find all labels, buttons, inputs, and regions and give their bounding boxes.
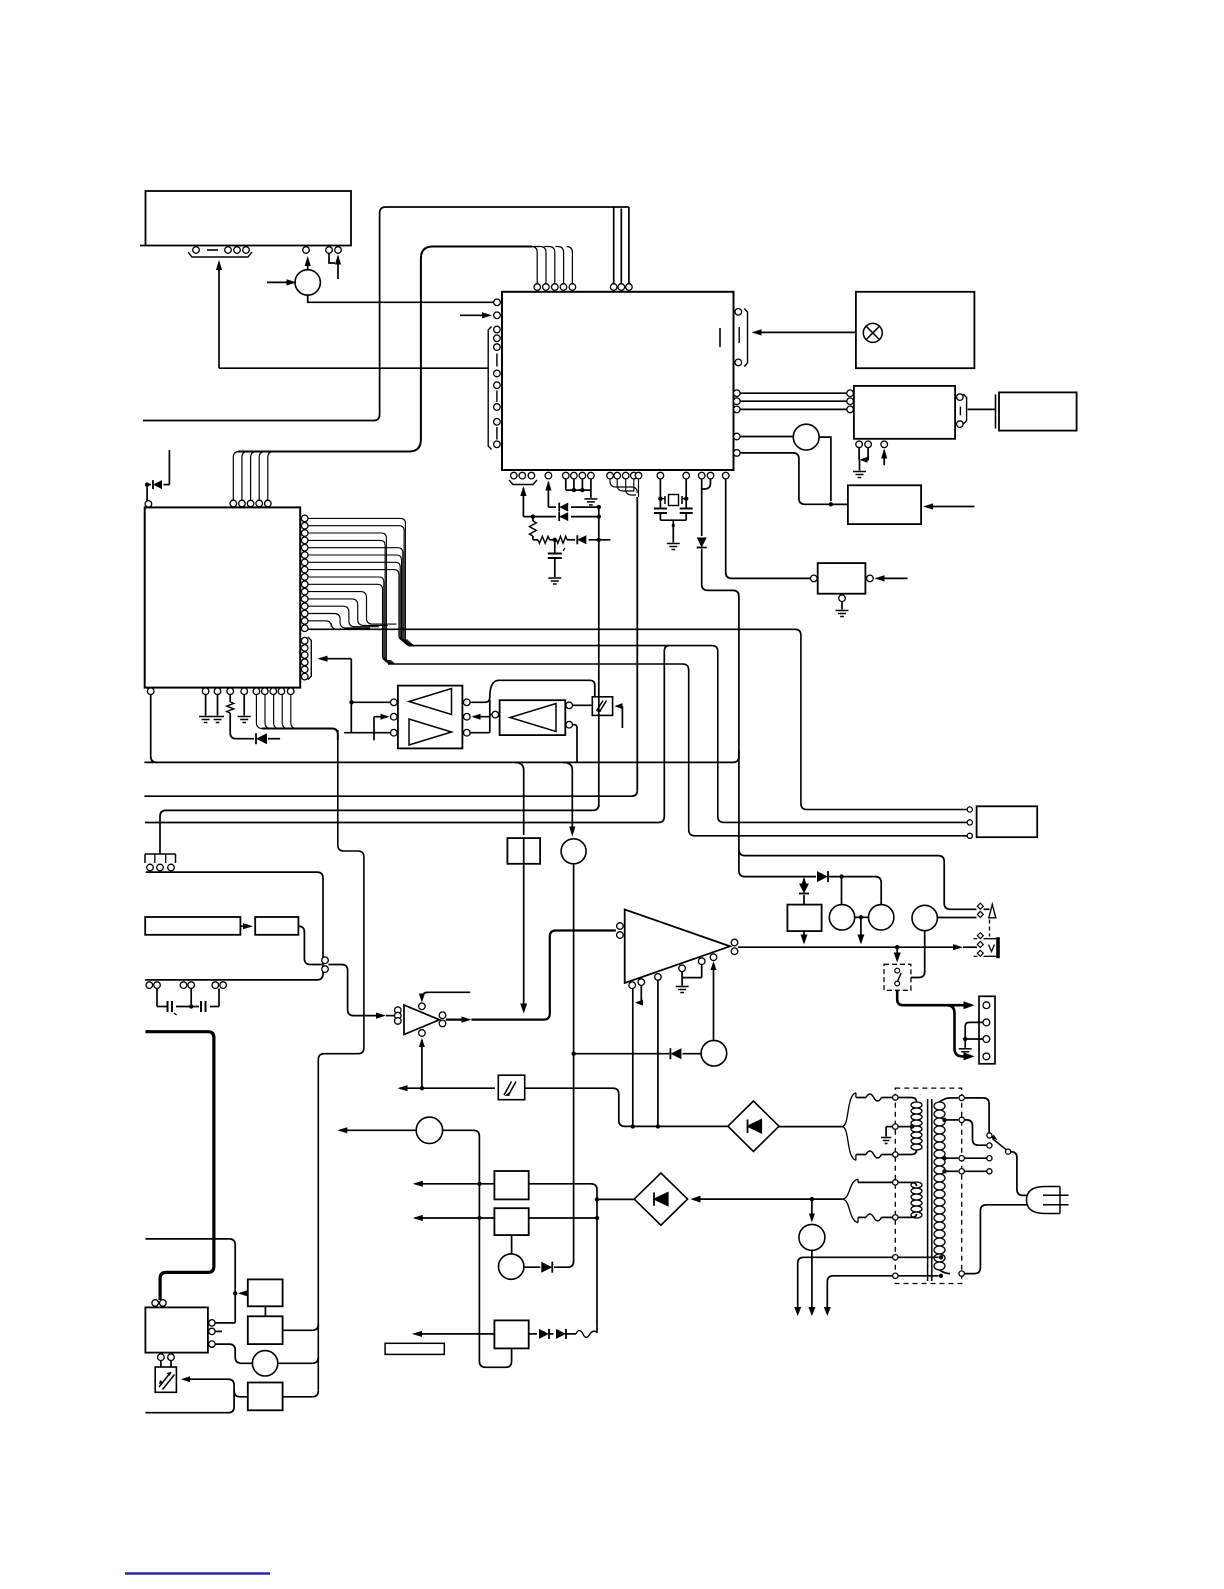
wire: H856 branch to jack sense <box>739 850 977 910</box>
wire: R2 to Q7 <box>511 1235 513 1254</box>
bracket: IC1 bottom group1 <box>509 480 537 485</box>
bus: H645 to right box pin2 <box>408 646 967 823</box>
wire: secondary tap4 <box>942 1169 946 1173</box>
wire: C right to V318 <box>283 1396 313 1398</box>
node: rail junctions <box>597 505 601 509</box>
wire: Q3 down V574 <box>554 864 574 1267</box>
wire: secondary lower arm bottom <box>857 1217 859 1222</box>
wire: long H762 <box>144 750 739 762</box>
block: box-T tuner unit <box>848 485 921 524</box>
wire: diode rail2 <box>523 516 556 518</box>
wire: arrow into buffer1 mid <box>374 716 387 718</box>
block: power unit box right <box>977 806 1038 837</box>
ground: display unit <box>853 472 866 478</box>
winding: T1 secondary <box>934 1102 945 1110</box>
wire: H1239 <box>145 1238 229 1240</box>
block: box A <box>248 1279 283 1306</box>
transistor Q4b <box>869 905 894 930</box>
diode D10 <box>817 871 828 882</box>
wire: IC1 pin to reset IC <box>726 479 811 578</box>
wire: V490 ties <box>489 700 491 733</box>
switch SW2 power <box>987 1133 992 1138</box>
resistor R4 under IC2 <box>229 695 231 703</box>
wire: arrow down to Q6 <box>811 1199 813 1219</box>
wire: V574 through Q3 <box>573 838 575 840</box>
board outline thick L <box>145 1032 214 1300</box>
diode D3 on rail3 <box>576 535 578 544</box>
wire: IC1 to Q2 <box>740 436 793 438</box>
diode D11 <box>539 1329 549 1339</box>
wire: CN3 to V323 <box>145 872 323 980</box>
pins: display bottom <box>856 441 863 448</box>
ground: IC2 pin b <box>211 717 224 723</box>
block: box R3 <box>494 1320 528 1348</box>
pins: power amp bottom <box>629 982 636 989</box>
wire: arrow into box A <box>238 1290 247 1296</box>
bracket: IC2 lower-right <box>308 637 311 680</box>
wire: H1184 row <box>413 1181 423 1187</box>
wire: V524 box1 chain <box>523 838 525 864</box>
wire: pin pair to opamp1 <box>328 965 383 1016</box>
wire: gnd stubs IC2 bottom <box>205 695 207 716</box>
wire: box bottom-edge extension <box>140 245 146 247</box>
brace right of BR2 <box>842 1179 858 1199</box>
node: V479 junctions <box>477 1182 481 1186</box>
block: box R2 <box>494 1208 528 1235</box>
block: box V1 (motor driver) <box>507 838 540 864</box>
pin: opamp1 top <box>419 1003 426 1010</box>
wire: Q1a emitter to IC1 pin <box>308 295 494 302</box>
pins: IC2 top <box>230 500 237 507</box>
pins: T1 right edge <box>959 1095 964 1100</box>
connector CN2 <box>979 996 995 1064</box>
wire: tap 1276 to arrow <box>827 1276 892 1312</box>
diode D2 on rail2 <box>558 512 560 521</box>
wire: arrow L1 to L2 <box>240 925 250 927</box>
wire: V352 to buffer and bundle <box>350 659 352 733</box>
pins: under H980 <box>146 982 153 989</box>
brace right of BR1 <box>842 1093 856 1127</box>
wire: IC2 pin to H762 <box>151 695 157 763</box>
lamp symbol <box>863 323 882 342</box>
ground: group3 <box>584 499 597 505</box>
wire: D6 tail <box>268 738 280 740</box>
wire: pins group3 to gnd bus <box>565 479 567 490</box>
wire: Q8 to V318 <box>278 1362 313 1364</box>
pins: IC1 bottom <box>511 472 518 479</box>
capacitor C2 <box>654 508 667 510</box>
IC U5 servo/signal processor <box>145 507 301 687</box>
LDR symbol <box>159 1372 175 1390</box>
fuse F2 <box>866 1151 882 1158</box>
wire: secondary lower arm top <box>858 1181 893 1183</box>
pins: IC1 right trio <box>734 390 741 397</box>
bus: IC2 bottom 5-wire bundle to V338 <box>262 729 338 741</box>
wire: secondary tap2 <box>942 1118 946 1122</box>
fuse F3 <box>866 1214 882 1221</box>
wire: CN4 pin2 stub <box>215 1330 222 1332</box>
wire: primary bottom arm <box>856 1154 866 1156</box>
pin: IC2 top-left <box>145 501 152 508</box>
LDR (CdS cell) box <box>155 1367 176 1392</box>
zener D9 <box>799 884 809 894</box>
bus: IC2 pins to column B <box>308 533 395 664</box>
wire: IC1 top pin stubs <box>613 207 615 284</box>
bus: H629 net to right box pin1 <box>308 629 967 809</box>
switch SW1 dashed box <box>884 964 911 990</box>
wire: V2 down-arrow to output line <box>803 931 805 941</box>
node: junction V831/H504 <box>829 502 833 506</box>
bracket: IC1 left pin group <box>488 327 491 450</box>
wire: arrow into box-T <box>926 506 975 508</box>
buffer triangle B <box>409 719 452 745</box>
ground: IC2 pin a <box>199 717 212 723</box>
wire: group4 bundle hooks <box>636 497 638 790</box>
wire: CN4 pin3 to Q8 <box>215 1344 252 1363</box>
node: D10 out <box>839 874 843 878</box>
AC plug PL1 <box>1027 1187 1061 1214</box>
transistor Q7 <box>499 1254 524 1279</box>
wire: up-arrow on zener stem <box>801 877 807 886</box>
capacitor C3 <box>680 508 693 510</box>
wire: A-B link <box>264 1306 266 1316</box>
photo symbol PH2 <box>597 701 607 712</box>
wire: cap chain <box>156 989 158 1007</box>
wire: amp pin to Q5 up-arrow <box>711 961 717 970</box>
transistor Q4c <box>912 905 937 930</box>
wire: opamp1 output to power amp <box>446 1018 468 1020</box>
block: box R1 <box>494 1171 528 1199</box>
pin: reset right <box>867 575 874 582</box>
op-amp U3 <box>404 1005 440 1035</box>
wire: display pin up-arrow stub <box>883 450 885 465</box>
fuse F1 <box>866 1094 882 1101</box>
pins: CN2 <box>983 1002 990 1009</box>
wire: Q4c to jack tip <box>937 917 976 919</box>
wire: arrow down into switch <box>896 947 898 959</box>
pins: opamp1 out <box>439 1012 446 1019</box>
op-amp U4 power amplifier <box>625 910 730 984</box>
wire: L2 to pin pair <box>298 926 321 964</box>
wire: SW2 to plug <box>1011 1152 1028 1196</box>
wire: hook with up-arrow at pins <box>329 253 335 263</box>
crystal X1 circuit <box>659 479 661 499</box>
wire: opamp1 bottom to H1088 <box>419 1038 425 1047</box>
wire: amp hook arrow <box>637 985 641 1002</box>
motor M1 circle <box>416 1117 442 1143</box>
bus: IC2 pins to column A <box>308 518 414 645</box>
pins: display unit left <box>847 390 854 397</box>
wire: arrow from lamp unit into IC1 <box>754 331 856 333</box>
wire: rails tie V599 <box>598 507 600 540</box>
resistor R2 horizontal <box>538 536 550 543</box>
pins: CN3 <box>147 864 154 871</box>
wire: zener pins merge <box>701 479 703 536</box>
wire: H1054 from V574 to D8 <box>572 1052 576 1056</box>
connector CN4 box <box>145 1307 208 1352</box>
capacitor C4 <box>167 1001 169 1012</box>
wire: reset gnd stem <box>841 602 843 610</box>
block: panel box right <box>999 392 1077 430</box>
wire: SW1 to CN2 pin1 thick <box>897 990 971 1005</box>
wire: into opamp1 pins <box>386 1015 394 1017</box>
wire: H822 to V668 <box>145 646 668 823</box>
pin: opamp1 bottom <box>419 1030 426 1037</box>
wire: R2 to V597 <box>529 1217 597 1219</box>
wire: tap 1257 to arrow <box>798 1257 893 1312</box>
buffer2 triangle <box>510 704 556 732</box>
photo symbol PH1 <box>504 1082 516 1096</box>
wire: primary top arm <box>856 1097 866 1099</box>
diode D6 <box>255 733 257 744</box>
pin: buffer2 left <box>492 711 499 718</box>
pins: power unit left <box>967 807 972 812</box>
transistor Q5 <box>701 1040 727 1066</box>
ground: CN2 <box>959 1049 972 1055</box>
wire: arrow into BR2 <box>691 1196 701 1203</box>
wire: 3 lines IC1 to display unit <box>740 392 847 394</box>
bus: 5-wire bundle IC2 top pins to IC1 top pins <box>238 247 532 452</box>
wire: arrow into buffer1 mid-right <box>472 714 481 720</box>
thermal protector Q6 <box>799 1224 825 1250</box>
wire: primary mid tap gnd <box>886 1126 893 1128</box>
wire: cap to gnd <box>554 558 556 577</box>
wire: H796 to IC1 bundle <box>144 790 637 796</box>
wire: long net y=420 up x=380 right y=207 to IC1 <box>143 207 629 421</box>
transistor Q2 <box>793 424 819 450</box>
diode D1 on rail1 <box>558 503 560 512</box>
IC U7 buffer <box>500 700 566 735</box>
wire: T1 bottom to plug <box>940 1270 951 1274</box>
wire: LDR pin stubs <box>160 1361 162 1368</box>
wire: buffer2 to photo box <box>573 704 593 706</box>
diode D5 net at IC2 top-left <box>145 482 149 486</box>
wire: Q6 down arrow <box>811 1250 813 1312</box>
wire: BR1 to brace <box>779 1126 842 1128</box>
block: top-left PCB unit box <box>146 191 352 246</box>
wire: arrow into IC1 pin2 <box>460 314 489 316</box>
pins: opamp1 left <box>395 1007 402 1014</box>
pin: IC1 left pin1 <box>494 299 501 306</box>
connector CN3 bracket <box>145 853 176 855</box>
block: box B <box>248 1316 283 1344</box>
pins: LDR top <box>158 1354 165 1361</box>
bus: IC2 lower pins fan <box>308 592 397 625</box>
wire: power amp output line <box>738 946 960 948</box>
block: power/lamp unit box <box>856 292 975 368</box>
pins: power amp in <box>617 923 624 930</box>
wire: amp pin V658 <box>657 980 659 1126</box>
node pins above transistor Q1a <box>303 247 310 254</box>
wire: IC1 pin5 to box-T <box>740 453 848 504</box>
wire: B right to V318 <box>283 1329 313 1331</box>
pins: IC2 bottom <box>147 688 154 695</box>
capacitor C1 <box>548 553 562 555</box>
wire: diode row H877 <box>752 876 816 878</box>
wire: D8 to Q5 <box>682 1053 701 1055</box>
pin: reset left <box>811 575 818 582</box>
pins: CN4 right <box>209 1320 215 1326</box>
diode D7 <box>541 1262 552 1273</box>
bracket: IC1 right connector <box>744 309 747 367</box>
wire: opamp1 bias stub <box>422 992 470 998</box>
ground: C1 <box>548 578 561 584</box>
block: mechanism unit box L1 <box>145 917 240 935</box>
wire: diode rail1 <box>548 506 556 508</box>
wire: buffer2 low stub <box>573 725 577 763</box>
jack J1 lower pins <box>977 933 983 957</box>
wire: primary connections <box>898 1097 911 1099</box>
wire: arrow into IC2 bracket <box>318 656 328 662</box>
wire: D7 to Q7 <box>524 1266 540 1268</box>
wire: V599 down to H810 <box>598 540 600 807</box>
wire: V597 <box>596 1199 598 1328</box>
bus: H664 to right box pin3 <box>388 664 967 836</box>
wire: arrow into LDR <box>181 1376 190 1382</box>
IC U2 reset supervisor <box>818 563 866 594</box>
wire: rail3 base <box>533 539 538 541</box>
diode symbol in BR1 <box>747 1120 749 1134</box>
wire: Q4a-Q4b link <box>855 916 869 918</box>
wire: display bottom gnd hook <box>861 448 868 460</box>
transformer T1 dashed box <box>895 1088 961 1283</box>
pin: reset bottom <box>839 595 846 602</box>
wire: zener into box V2 <box>803 895 805 905</box>
wire: Q4c base down to switch <box>911 931 925 978</box>
wire: secondary top tap <box>940 1098 951 1102</box>
pins: IC1 right bracket pair <box>735 309 742 316</box>
bridge rectifier BR1 diamond <box>728 1101 779 1152</box>
ground: reset IC <box>836 611 849 617</box>
pins: T1 left edge <box>893 1095 898 1100</box>
wire: M1 right to V479 <box>443 1130 512 1367</box>
wire: arrow into PH2 <box>615 703 623 709</box>
label bar empty <box>385 1343 444 1354</box>
wire: R3 right diodes <box>529 1333 537 1335</box>
wire: box C left net <box>234 1391 248 1397</box>
wire: H810 connector to diode rails <box>166 804 599 810</box>
transistor Q4a <box>829 905 854 930</box>
block: box V2 regulator <box>787 905 821 932</box>
diode D8 <box>669 1048 671 1059</box>
pins: IC1 left column <box>494 326 501 333</box>
wire: H1218 row <box>413 1215 423 1221</box>
pin: IC1 left pin2 <box>494 312 501 319</box>
jack J1 body <box>996 937 1000 958</box>
wire: crystal gnd <box>660 519 686 521</box>
photo-sensor PH1 box <box>498 1075 524 1100</box>
ground: power amp <box>676 987 689 993</box>
bracket: display right <box>963 394 966 424</box>
wire: buffer1 out top net <box>470 680 595 702</box>
jack J1 dashed link <box>989 920 991 937</box>
wire: amp pin V633 <box>632 989 634 1127</box>
pins: IC2 right column <box>301 515 308 522</box>
ground: crystal <box>667 544 680 550</box>
block: box C <box>248 1383 283 1411</box>
wire: M1 left arrow <box>337 1127 347 1133</box>
pins: buffer2 right <box>566 702 573 709</box>
pins: stacked pair <box>322 957 329 964</box>
wire: Q4 link down-arrow <box>860 917 862 941</box>
pins: power amp out <box>731 939 738 946</box>
IC U6 dual buffer <box>398 686 463 749</box>
wire: feedback run y=368 <box>219 367 488 369</box>
wire: thick branch to CN2 pin4 <box>947 1005 972 1056</box>
wire: arrow into Q1a <box>267 281 294 283</box>
jack J1 tip triangle <box>989 905 996 918</box>
winding: T1 primary upper <box>911 1102 922 1108</box>
pins: CN4 top <box>152 1300 159 1307</box>
wire: amp gnd jog <box>682 965 702 986</box>
wire: zener to V741 <box>702 549 752 877</box>
IC U1 main system controller <box>502 292 734 470</box>
wire: secondary tap3 <box>942 1156 946 1160</box>
connector bracket under top-left box <box>188 252 252 257</box>
mark: bus dash inside IC1 <box>719 328 721 347</box>
zener D4 <box>697 538 707 548</box>
resistor R1 vertical <box>529 521 536 536</box>
connector pins under top-left box <box>193 247 200 254</box>
opto Q8 circle <box>252 1351 277 1376</box>
wire: buffer1 low right <box>470 732 490 734</box>
pins: buffer1 right <box>464 699 471 706</box>
block: display unit box <box>854 386 955 439</box>
wire: D10 to Q4a <box>841 877 843 905</box>
wire: arrow onto Q3 <box>569 827 575 837</box>
capacitor C5 <box>200 1001 202 1012</box>
wire: H1088 arrow <box>398 1085 408 1091</box>
block: unit box L2 <box>255 917 298 935</box>
transformer core <box>927 1099 929 1281</box>
pin: IC1 right pin5 <box>734 450 741 457</box>
pin: IC1 right Q1 pin <box>734 433 741 440</box>
photo-interrupter PH2 box <box>592 697 612 716</box>
transistor Q3 <box>561 839 586 864</box>
switch SW1 contacts <box>895 968 900 973</box>
pins: display right bracket <box>957 394 964 401</box>
wire: R1 to V597 <box>529 1184 597 1200</box>
pins: IC2 lower bracket <box>301 637 308 644</box>
transistor Q1a <box>295 270 320 295</box>
wire: PH1 to H1126 <box>525 1088 728 1126</box>
diode symbol in BR2 <box>653 1192 655 1205</box>
wire: brace arm verticals <box>855 1093 857 1098</box>
wire: Q1a collector up-arrow <box>307 259 309 270</box>
jack J1 pins upper <box>977 903 983 917</box>
wire: CN2 pin2 gnd net <box>965 1022 983 1047</box>
wire: arrow into reset IC <box>877 577 908 579</box>
ground: IC2 pin c <box>238 717 251 723</box>
pins: buffer1 left <box>391 699 398 706</box>
wire: bracket arrow to rail <box>520 486 526 496</box>
bridge rectifier BR2 diamond <box>634 1173 687 1225</box>
inductor L2 squiggle <box>576 1330 597 1337</box>
pins: IC1 top <box>534 284 541 291</box>
wire: cap branch <box>554 540 556 553</box>
wire: Q2 to V831 <box>819 437 831 501</box>
wire: H1199 to BR2 <box>597 1198 634 1200</box>
wire: pin up-arrow to rail1 <box>545 481 551 491</box>
bus: V338 jog V364 to H1054 <box>318 730 364 1391</box>
buffer triangle A <box>409 689 452 715</box>
diode D12 <box>556 1329 566 1339</box>
winding: T1 primary lower <box>911 1182 922 1188</box>
link: blue underline <box>125 1572 270 1574</box>
resistor R3 horizontal <box>557 536 568 543</box>
wire: CN4 pin1 up net <box>215 1322 235 1324</box>
wire: feedback arrow into top-left box <box>216 260 222 270</box>
